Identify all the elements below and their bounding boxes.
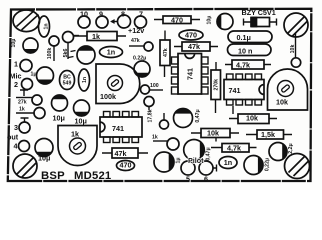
svg-text:1k: 1k xyxy=(71,130,79,139)
svg-text:100k: 100k xyxy=(100,92,116,101)
svg-text:270k: 270k xyxy=(214,79,220,91)
svg-text:10μ: 10μ xyxy=(11,39,17,48)
svg-text:1,5k: 1,5k xyxy=(261,130,275,139)
svg-text:BZY C5V1: BZY C5V1 xyxy=(242,8,276,17)
svg-text:741: 741 xyxy=(229,86,241,95)
svg-text:1n: 1n xyxy=(43,23,49,29)
svg-text:1: 1 xyxy=(14,60,18,69)
svg-text:470: 470 xyxy=(171,15,183,24)
svg-text:Pilot: Pilot xyxy=(188,156,204,165)
svg-text:10μ: 10μ xyxy=(53,114,65,123)
svg-text:+12v: +12v xyxy=(128,26,144,35)
svg-text:10k: 10k xyxy=(290,45,296,54)
svg-text:0.22μ: 0.22μ xyxy=(133,56,146,62)
svg-text:10μ: 10μ xyxy=(38,154,50,163)
svg-text:BSP: BSP xyxy=(41,170,65,182)
svg-text:741: 741 xyxy=(185,68,194,80)
svg-text:10k: 10k xyxy=(207,129,219,138)
svg-text:Mic: Mic xyxy=(10,71,22,80)
svg-text:10k: 10k xyxy=(276,98,288,107)
svg-text:4,7k: 4,7k xyxy=(227,144,241,153)
svg-text:1μ: 1μ xyxy=(31,72,37,78)
svg-text:10k: 10k xyxy=(246,114,258,123)
svg-text:470: 470 xyxy=(185,30,197,39)
svg-text:47k: 47k xyxy=(163,48,169,57)
svg-text:47k: 47k xyxy=(131,38,140,44)
svg-text:9: 9 xyxy=(99,10,103,19)
svg-text:741: 741 xyxy=(112,124,124,133)
svg-text:MD521: MD521 xyxy=(74,170,111,182)
svg-text:1n: 1n xyxy=(82,77,88,83)
svg-text:27k: 27k xyxy=(18,100,27,106)
svg-text:3: 3 xyxy=(14,123,18,132)
svg-text:47k: 47k xyxy=(188,42,200,51)
svg-text:17,8k: 17,8k xyxy=(148,109,154,122)
svg-text:7: 7 xyxy=(139,10,143,19)
svg-text:0,47μ: 0,47μ xyxy=(195,109,201,122)
svg-text:4: 4 xyxy=(14,142,18,151)
svg-text:5: 5 xyxy=(186,175,190,184)
svg-text:5k6: 5k6 xyxy=(63,49,69,58)
svg-text:8: 8 xyxy=(121,10,125,19)
svg-text:6: 6 xyxy=(204,175,208,184)
svg-text:0.1μ: 0.1μ xyxy=(237,33,251,42)
svg-text:1k: 1k xyxy=(152,135,158,141)
svg-text:1n: 1n xyxy=(224,158,232,167)
svg-text:100k: 100k xyxy=(47,48,53,60)
svg-text:470: 470 xyxy=(120,161,132,170)
svg-text:100: 100 xyxy=(150,83,159,89)
svg-text:10μ: 10μ xyxy=(207,16,213,25)
svg-text:549: 549 xyxy=(63,81,72,87)
svg-text:0,47μ: 0,47μ xyxy=(206,147,212,160)
svg-text:10μ: 10μ xyxy=(75,117,87,126)
svg-text:47k: 47k xyxy=(115,149,127,158)
svg-text:10: 10 xyxy=(80,10,88,19)
svg-text:0,22μ: 0,22μ xyxy=(265,158,271,171)
svg-text:1k: 1k xyxy=(92,32,100,41)
svg-text:1n: 1n xyxy=(107,48,115,57)
svg-text:2,2μ: 2,2μ xyxy=(288,143,294,153)
svg-text:1k: 1k xyxy=(19,107,25,113)
svg-text:2: 2 xyxy=(14,80,18,89)
svg-text:1μ: 1μ xyxy=(176,157,182,163)
svg-text:10 n: 10 n xyxy=(238,46,252,55)
svg-text:4,7k: 4,7k xyxy=(236,60,250,69)
svg-text:out: out xyxy=(7,133,19,142)
